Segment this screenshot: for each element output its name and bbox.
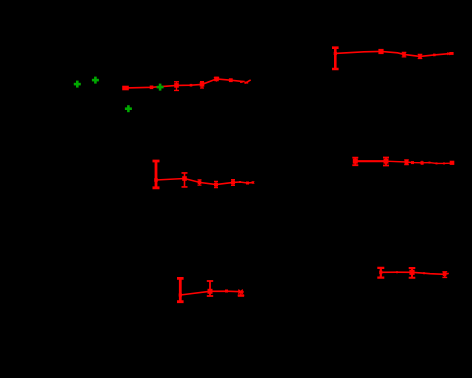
node E1 marker — [179, 293, 182, 296]
node B5 marker — [433, 54, 436, 57]
node G3 green plus — [157, 84, 164, 91]
series B (top-right panel) — [332, 48, 454, 69]
node E2 marker — [208, 289, 213, 294]
node A1 marker — [122, 86, 129, 91]
node A2 marker — [150, 86, 154, 90]
node D8 marker — [443, 162, 445, 164]
series C (middle-left panel) — [153, 161, 255, 188]
node F5 marker — [443, 273, 447, 277]
node F1 marker — [379, 271, 382, 274]
series E (bottom-left panel) — [177, 278, 244, 301]
node D2 marker — [384, 159, 389, 164]
wire: series D error bar at x=355.3 — [352, 158, 358, 166]
wire: series F error bar at x=444.8 — [442, 272, 447, 278]
wire: series A error bar at x=176.5 — [174, 82, 179, 91]
node C4 marker — [214, 183, 218, 187]
node B2 marker — [378, 49, 383, 54]
node A9 blob — [245, 82, 248, 84]
node C3 marker — [198, 181, 202, 185]
wire: series B error bar at x=404 — [402, 52, 407, 57]
node D9 marker — [450, 161, 455, 165]
series A (top-left panel) — [122, 77, 251, 91]
node D6 marker — [429, 162, 431, 164]
series D (middle-right panel) — [352, 158, 454, 166]
wire: series D polyline — [386, 161, 454, 163]
wire: series B polyline — [335, 51, 453, 56]
node C2 marker — [182, 176, 187, 181]
node F3 marker — [396, 271, 398, 273]
wire: series C error bar at x=216 — [214, 181, 218, 187]
node A7 marker — [229, 78, 233, 82]
node D3 marker — [405, 160, 409, 164]
node D4 marker — [411, 161, 414, 164]
wire: series E bottom cap block — [238, 294, 244, 297]
wire: series F error bar at x=380.8 — [377, 268, 384, 278]
node G2 green plus — [92, 77, 99, 84]
node A5 marker — [200, 82, 205, 87]
wire: series E polyline — [180, 291, 244, 295]
node D5 marker — [421, 161, 424, 164]
wire: series B error bar at x=420 — [418, 54, 423, 58]
node F4 marker — [423, 272, 425, 274]
wire: series D error bar at x=406.5 — [404, 160, 409, 165]
wire: series E error bar at x=180.3 — [177, 278, 184, 301]
wire: series F error bar at x=412 — [409, 268, 416, 278]
wire: series A error bar at x=216.5 — [214, 78, 219, 82]
wire: series D thick segment — [355, 160, 386, 162]
wire: series E error bar at x=210 — [207, 281, 213, 296]
node B1 marker — [334, 52, 337, 55]
wire: series B error bar at x=335.3 — [332, 48, 339, 69]
series F (bottom-right panel) — [377, 268, 449, 278]
wire: series C error bar at x=199.5 — [198, 180, 202, 185]
node G4 green plus — [125, 105, 132, 112]
node B4 marker — [418, 55, 422, 59]
wire: series C error bar at x=184.5 — [182, 173, 188, 187]
node E4 marker — [238, 290, 243, 294]
wire: series A error bar at x=202 — [200, 82, 204, 88]
node A6 marker — [214, 77, 219, 82]
wire: series C error bar at x=233 — [231, 180, 235, 186]
wire: series A polyline — [126, 79, 245, 88]
wire: series C polyline — [156, 179, 253, 185]
node C7 marker — [246, 182, 249, 185]
node C1 marker — [154, 178, 158, 182]
wire: series D error bar at x=386 — [383, 158, 389, 166]
wire: series E error bar at x=240.8 — [238, 292, 244, 296]
node C5 marker — [231, 180, 235, 184]
wire: series F polyline — [381, 272, 449, 274]
wire: series D error bar at x=422 — [421, 161, 424, 165]
node A9 end tick — [245, 80, 251, 84]
node G1 green plus — [74, 81, 81, 88]
node A8 marker — [240, 81, 243, 83]
node B7 marker — [449, 52, 453, 55]
node A4 marker — [190, 84, 193, 87]
node E3 marker — [225, 290, 228, 293]
node C6 marker — [239, 181, 241, 183]
node F2 marker — [409, 270, 414, 275]
node D1 marker — [353, 159, 358, 164]
node B3 marker — [402, 53, 406, 57]
node A3 marker — [174, 83, 179, 88]
node D7 marker — [436, 162, 438, 164]
node C8 marker — [252, 181, 254, 183]
wire: series C error bar at x=156 — [153, 161, 160, 188]
node B6 marker — [448, 52, 451, 55]
